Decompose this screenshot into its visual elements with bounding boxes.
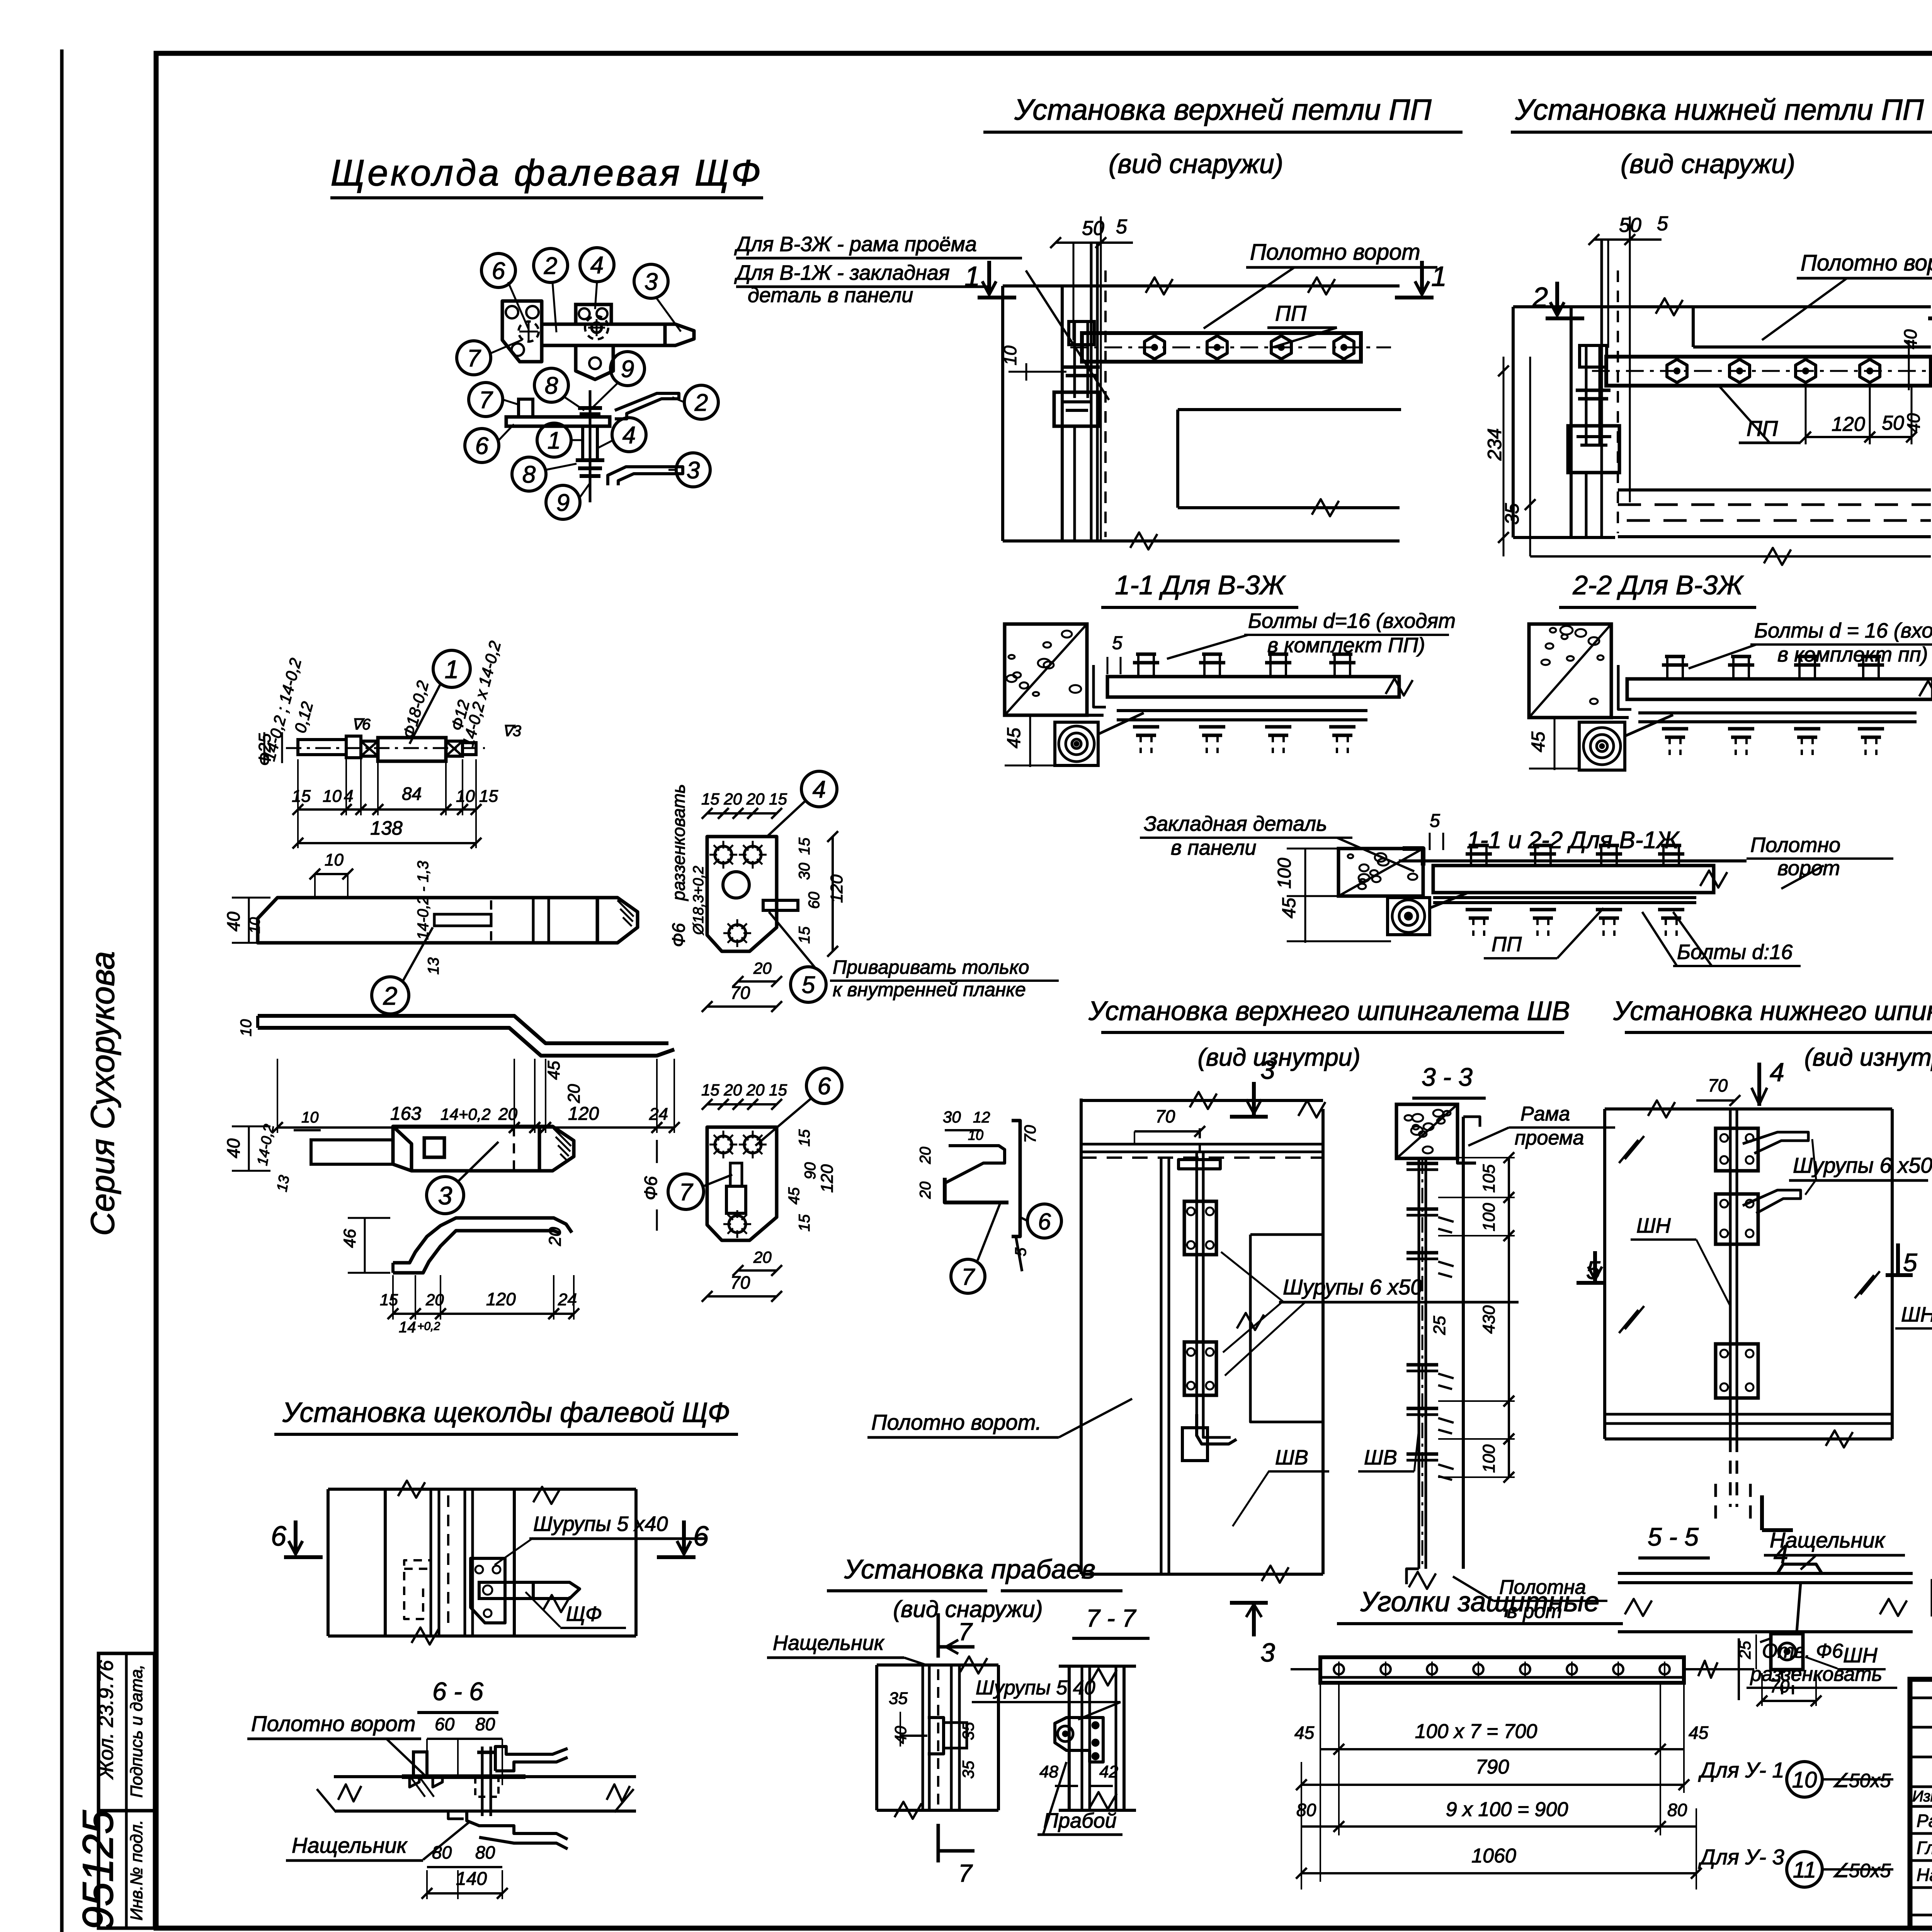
svg-text:20: 20 bbox=[753, 959, 772, 977]
svg-text:Прабой: Прабой bbox=[1043, 1809, 1117, 1832]
part 3 latch bar with arrow tip bbox=[311, 1140, 393, 1164]
ШВ guide plate upper bbox=[1184, 1201, 1216, 1255]
5-5 keeper box bbox=[1771, 1634, 1803, 1670]
svg-text:5: 5 bbox=[1112, 633, 1122, 653]
svg-text:5: 5 bbox=[1012, 1247, 1029, 1256]
svg-text:80: 80 bbox=[1296, 1800, 1316, 1820]
svg-text:15: 15 bbox=[796, 1129, 813, 1146]
svg-text:6: 6 bbox=[818, 1073, 831, 1100]
svg-text:100: 100 bbox=[1274, 858, 1295, 889]
part 2 slot bbox=[434, 914, 491, 926]
svg-text:1: 1 bbox=[445, 655, 459, 684]
svg-text:к внутренней планке: к внутренней планке bbox=[833, 979, 1026, 1000]
svg-text:42: 42 bbox=[1099, 1762, 1118, 1781]
svg-text:Подпись и дата,: Подпись и дата, bbox=[127, 1664, 146, 1798]
section 2-2 bolts bbox=[1665, 655, 1685, 658]
svg-text:12: 12 bbox=[973, 1109, 990, 1126]
part hook (lower) bbox=[393, 1218, 572, 1263]
svg-text:(вид изнутри): (вид изнутри) bbox=[1804, 1043, 1932, 1071]
svg-text:Гл. спец.: Гл. спец. bbox=[1917, 1838, 1932, 1858]
part Z bent bar bbox=[258, 1016, 668, 1043]
svg-text:45: 45 bbox=[1279, 898, 1299, 918]
section 2-2 strap bar bbox=[1627, 679, 1932, 699]
part 2 arrow tip bbox=[597, 898, 638, 943]
svg-text:80: 80 bbox=[1667, 1800, 1687, 1820]
svg-text:20: 20 bbox=[546, 1227, 565, 1246]
svg-text:15: 15 bbox=[796, 926, 813, 944]
svg-text:Установка верхней петли ПП: Установка верхней петли ПП bbox=[1014, 94, 1432, 126]
svg-text:5: 5 bbox=[1903, 1248, 1917, 1277]
svg-text:∇6: ∇6 bbox=[352, 716, 371, 733]
bent keeper section (pos 7/6) bbox=[945, 1146, 1005, 1183]
svg-text:9 х 100 = 900: 9 х 100 = 900 bbox=[1446, 1798, 1568, 1821]
svg-text:Установка нижней петли ПП: Установка нижней петли ПП bbox=[1515, 94, 1924, 126]
callout circle 8 upper bbox=[534, 368, 568, 402]
section 2-2 frame angle bbox=[1611, 657, 1629, 718]
svg-text:15: 15 bbox=[479, 787, 498, 806]
svg-text:9: 9 bbox=[556, 490, 570, 516]
svg-text:2: 2 bbox=[694, 389, 708, 416]
svg-text:14: 14 bbox=[399, 1319, 416, 1336]
callout circle 3 right bbox=[676, 453, 710, 487]
svg-text:14+0,2: 14+0,2 bbox=[440, 1105, 491, 1123]
svg-text:6: 6 bbox=[271, 1521, 287, 1552]
callout circle 9 lower bbox=[546, 485, 580, 519]
svg-text:15: 15 bbox=[796, 837, 813, 855]
svg-text:Инв.№ подл.: Инв.№ подл. bbox=[127, 1820, 146, 1921]
svg-text:120: 120 bbox=[568, 1104, 599, 1124]
callout circle 4 lower bbox=[612, 418, 646, 452]
svg-text:10: 10 bbox=[301, 1109, 319, 1126]
hook pos3 (lower right) bbox=[608, 467, 683, 485]
3-3 concrete lintel bbox=[1396, 1104, 1458, 1158]
svg-text:(вид изнутри): (вид изнутри) bbox=[1197, 1043, 1360, 1071]
svg-text:ПП: ПП bbox=[1492, 933, 1522, 956]
svg-text:60: 60 bbox=[435, 1714, 455, 1734]
callout circle 4 bbox=[580, 248, 614, 282]
svg-text:50: 50 bbox=[1882, 412, 1904, 434]
ШВ guide plate lower bbox=[1184, 1342, 1216, 1395]
ШН rod below panel (dashed) bbox=[1729, 1439, 1732, 1507]
svg-text:3: 3 bbox=[438, 1181, 452, 1210]
svg-text:10: 10 bbox=[323, 787, 342, 806]
ШН panel bottom rail bbox=[1605, 1413, 1892, 1416]
sheet trim line left bbox=[60, 49, 64, 1932]
svg-text:6: 6 bbox=[475, 433, 489, 459]
svg-text:раззенковать: раззенковать bbox=[1750, 1663, 1882, 1685]
svg-text:Полотно ворот: Полотно ворот bbox=[251, 1711, 415, 1736]
svg-text:2: 2 bbox=[383, 981, 398, 1010]
svg-text:10: 10 bbox=[325, 850, 344, 869]
svg-text:1-1 и 2-2 Для В-1Ж: 1-1 и 2-2 Для В-1Ж bbox=[1467, 827, 1680, 854]
svg-text:4: 4 bbox=[813, 776, 826, 803]
svg-text:5: 5 bbox=[1657, 213, 1668, 235]
svg-text:Болты d=16 (входят: Болты d=16 (входят bbox=[1248, 609, 1456, 633]
svg-text:14-0,2 - 1,3: 14-0,2 - 1,3 bbox=[415, 861, 432, 940]
svg-text:7 - 7: 7 - 7 bbox=[1086, 1604, 1136, 1632]
svg-text:5: 5 bbox=[1430, 811, 1440, 831]
3-3 screw arrows bbox=[1438, 1217, 1454, 1222]
svg-text:100 х 7 = 700: 100 х 7 = 700 bbox=[1415, 1720, 1537, 1743]
svg-text:5 - 5: 5 - 5 bbox=[1648, 1522, 1699, 1551]
section 2-2 lower plate bbox=[1638, 711, 1917, 714]
section 1-1 concrete jamb bbox=[1005, 624, 1087, 715]
svg-text:40: 40 bbox=[223, 912, 243, 932]
svg-text:Ф6: Ф6 bbox=[668, 923, 689, 947]
svg-text:Закладная деталь: Закладная деталь bbox=[1144, 812, 1327, 835]
svg-text:163: 163 bbox=[390, 1104, 421, 1124]
latch exploded view: keeper plate below pos4 bbox=[576, 345, 613, 379]
svg-text:ШВ: ШВ bbox=[1275, 1446, 1308, 1469]
svg-text:45: 45 bbox=[1294, 1723, 1315, 1743]
hook pos2 (upper right) bbox=[615, 393, 679, 419]
title block outer bbox=[1910, 1679, 1932, 1928]
svg-text:Жол. 23.9.76: Жол. 23.9.76 bbox=[95, 1660, 117, 1780]
svg-text:2: 2 bbox=[544, 253, 557, 279]
callout circle 8 lower bbox=[512, 457, 546, 491]
section 1-1 lower plate bbox=[1117, 709, 1367, 712]
svg-text:7: 7 bbox=[679, 1179, 694, 1206]
6-6 lower keeper bbox=[467, 1811, 568, 1839]
svg-text:138: 138 bbox=[370, 817, 403, 839]
stub pos7 bbox=[519, 399, 533, 417]
svg-text:Шурупы 5 40: Шурупы 5 40 bbox=[976, 1677, 1095, 1699]
svg-text:Для У- 3: Для У- 3 bbox=[1698, 1845, 1784, 1869]
section flag 7 bottom bbox=[937, 1824, 940, 1862]
svg-text:Полотно ворот: Полотно ворот bbox=[1801, 250, 1932, 276]
plate pos4 drawing bbox=[707, 837, 777, 951]
svg-text:35: 35 bbox=[959, 1760, 977, 1779]
svg-text:60: 60 bbox=[806, 892, 823, 909]
section mark 1 right bbox=[1395, 296, 1434, 299]
svg-text:ШН: ШН bbox=[1901, 1303, 1932, 1326]
svg-text:(вид снаружи): (вид снаружи) bbox=[1621, 149, 1795, 179]
section mark 2 left bbox=[1546, 316, 1584, 320]
svg-text:20: 20 bbox=[565, 1084, 583, 1103]
svg-text:Ф6: Ф6 bbox=[641, 1176, 661, 1201]
latch assembled lower view: base bar pos6 bbox=[506, 417, 610, 426]
svg-text:5: 5 bbox=[802, 972, 815, 998]
callout circle 1 bbox=[537, 423, 571, 457]
callout 7 pointing at stub bbox=[668, 1174, 704, 1209]
svg-text:95125: 95125 bbox=[74, 1810, 122, 1930]
svg-text:40: 40 bbox=[1900, 329, 1920, 349]
svg-text:20: 20 bbox=[917, 1147, 934, 1165]
svg-text:Отв. Ф6: Отв. Ф6 bbox=[1762, 1640, 1843, 1662]
section 1-1 bolts bbox=[1136, 653, 1156, 656]
6-6 latch section parts bbox=[413, 1752, 427, 1777]
svg-text:3: 3 bbox=[687, 457, 700, 484]
svg-text:Изм: Изм bbox=[1912, 1788, 1932, 1805]
svg-text:Установка прабаев: Установка прабаев bbox=[844, 1554, 1095, 1584]
svg-text:70: 70 bbox=[1155, 1106, 1175, 1126]
svg-text:10: 10 bbox=[238, 1019, 255, 1037]
latch exploded view: handle boss pos1 bbox=[585, 316, 608, 339]
svg-text:15 20 20 15: 15 20 20 15 bbox=[701, 1081, 787, 1099]
ШВ bottom latch foot bbox=[1197, 1414, 1236, 1444]
svg-text:7: 7 bbox=[958, 1859, 973, 1887]
svg-text:1: 1 bbox=[1431, 261, 1447, 292]
пробои main drawing bbox=[877, 1663, 998, 1667]
svg-text:70: 70 bbox=[730, 1272, 750, 1293]
уголок holes bbox=[1334, 1664, 1344, 1674]
leader wire to hinge bbox=[1026, 270, 1109, 400]
svg-text:1060: 1060 bbox=[1471, 1845, 1516, 1867]
svg-text:35: 35 bbox=[959, 1722, 977, 1740]
6-6 diag hatch marks bbox=[410, 1777, 425, 1797]
callout circle 3 bbox=[634, 264, 668, 298]
3-3 door edge line bbox=[1462, 1117, 1465, 1569]
svg-text:30: 30 bbox=[943, 1108, 961, 1126]
svg-text:Разраб.: Разраб. bbox=[1917, 1811, 1932, 1831]
svg-text:ШН: ШН bbox=[1636, 1214, 1671, 1237]
svg-text:Для В-3Ж - рама проёма: Для В-3Ж - рама проёма bbox=[734, 233, 977, 256]
svg-text:80: 80 bbox=[475, 1842, 495, 1862]
svg-text:6: 6 bbox=[693, 1521, 709, 1552]
svg-text:4: 4 bbox=[590, 252, 604, 279]
plate pos6 callout 6 bbox=[806, 1068, 842, 1104]
svg-text:2: 2 bbox=[1532, 282, 1548, 313]
svg-text:7: 7 bbox=[958, 1618, 973, 1646]
svg-text:120: 120 bbox=[827, 874, 846, 903]
svg-text:100: 100 bbox=[1480, 1203, 1498, 1231]
svg-text:ШВ: ШВ bbox=[1364, 1446, 1397, 1469]
svg-text:3: 3 bbox=[645, 269, 658, 295]
6-6 bolt through bbox=[481, 1747, 484, 1816]
уголок bar bbox=[1320, 1657, 1684, 1683]
part 3 callout bbox=[427, 1177, 464, 1214]
callout circle 7 lower bbox=[469, 383, 503, 417]
svg-text:45: 45 bbox=[1004, 728, 1024, 748]
bent keeper callouts bbox=[1027, 1204, 1061, 1238]
section В-1Ж bolts bbox=[1469, 844, 1489, 847]
3-3 frame angle top bbox=[1458, 1136, 1476, 1163]
svg-text:30: 30 bbox=[796, 863, 813, 880]
section mark 2 right bbox=[1928, 316, 1932, 320]
svg-text:45: 45 bbox=[1528, 731, 1549, 752]
wall / frame verticals bbox=[1001, 286, 1004, 541]
part 1 axle body bbox=[298, 740, 346, 755]
section mark 6 right bbox=[657, 1555, 696, 1559]
ШН lower plate bbox=[1716, 1344, 1758, 1398]
svg-text:120: 120 bbox=[1832, 413, 1865, 435]
svg-text:1: 1 bbox=[964, 261, 980, 292]
svg-text:7: 7 bbox=[961, 1264, 975, 1290]
ШВ door edge double line bbox=[1160, 1158, 1163, 1574]
svg-text:ПП: ПП bbox=[1275, 301, 1307, 325]
ШН rod bbox=[1729, 1109, 1732, 1439]
svg-text:46: 46 bbox=[340, 1229, 359, 1248]
svg-text:1-1 Для В-3Ж: 1-1 Для В-3Ж bbox=[1115, 570, 1286, 600]
щеколда latch parts bbox=[404, 1560, 431, 1619]
latch exploded view: strap pos2 bbox=[542, 324, 665, 345]
svg-text:8: 8 bbox=[522, 461, 536, 488]
hinge support box bbox=[1054, 392, 1100, 426]
lower hinge pivot stack bbox=[1585, 345, 1588, 444]
ШВ recess opening bbox=[1250, 1235, 1323, 1422]
svg-text:1: 1 bbox=[548, 427, 561, 454]
svg-text:Шурупы 6 х50: Шурупы 6 х50 bbox=[1283, 1275, 1422, 1299]
svg-text:4: 4 bbox=[622, 422, 636, 449]
svg-text:Полотно ворот.: Полотно ворот. bbox=[871, 1410, 1041, 1434]
svg-text:13: 13 bbox=[425, 957, 442, 975]
щеколда drawing panel lines bbox=[328, 1488, 636, 1491]
svg-text:15: 15 bbox=[380, 1291, 398, 1309]
svg-text:Нащельник: Нащельник bbox=[292, 1833, 408, 1857]
plate pos6 drawing (lower) bbox=[707, 1127, 777, 1240]
section 1-1 hinge spiral bbox=[1055, 722, 1098, 765]
svg-text:3: 3 bbox=[1260, 1055, 1275, 1085]
svg-text:105: 105 bbox=[1480, 1164, 1498, 1193]
svg-text:100: 100 bbox=[1480, 1444, 1498, 1473]
svg-text:120: 120 bbox=[486, 1289, 516, 1309]
svg-text:48: 48 bbox=[1039, 1762, 1058, 1781]
svg-text:Шурупы 5 х40: Шурупы 5 х40 bbox=[533, 1512, 668, 1536]
section 1-1 strap bar bbox=[1107, 677, 1399, 697]
svg-text:8: 8 bbox=[545, 372, 558, 399]
section В-1Ж concrete panel bbox=[1338, 849, 1423, 896]
section В-1Ж strap bar bbox=[1433, 866, 1714, 893]
callout circle 2 bbox=[534, 248, 568, 282]
svg-text:Установка верхнего шпингал: Установка верхнего шпингалета ШВ bbox=[1088, 996, 1570, 1026]
svg-text:6: 6 bbox=[492, 258, 505, 284]
svg-text:Установка щеколды фалевой Щ: Установка щеколды фалевой ЩФ bbox=[282, 1397, 730, 1428]
lower hinge bolts bbox=[1667, 359, 1687, 383]
svg-text:10: 10 bbox=[456, 787, 475, 806]
svg-text:Для В-1Ж - закладная: Для В-1Ж - закладная bbox=[734, 261, 950, 284]
3-3 bottom foot bbox=[1406, 1569, 1419, 1584]
svg-text:70: 70 bbox=[730, 983, 750, 1003]
svg-text:11: 11 bbox=[1793, 1857, 1816, 1883]
svg-text:35: 35 bbox=[889, 1689, 908, 1708]
latch exploded view: plate pos4 top bbox=[576, 304, 611, 324]
svg-text:Для У- 1: Для У- 1 bbox=[1698, 1758, 1784, 1782]
6-6 right break lines bbox=[317, 1789, 336, 1812]
wall verticals (lower hinge) bbox=[1512, 307, 1515, 537]
svg-text:3 - 3: 3 - 3 bbox=[1422, 1063, 1473, 1091]
svg-text:40: 40 bbox=[1903, 413, 1923, 433]
ШН upper plate with hook bbox=[1716, 1128, 1758, 1171]
vertical bolt pos1 bbox=[583, 426, 597, 460]
ШВ top rail lines bbox=[1081, 1143, 1323, 1146]
svg-text:80: 80 bbox=[475, 1714, 495, 1734]
svg-text:Ø18,3+0,2: Ø18,3+0,2 bbox=[690, 866, 707, 936]
7-7 keeper hook bbox=[1055, 1718, 1103, 1762]
gate panel top edge bbox=[1003, 284, 1400, 287]
section 2-2 hinge spiral bbox=[1579, 722, 1625, 770]
callout circle 6 lower bbox=[465, 429, 499, 463]
svg-text:∇3: ∇3 bbox=[502, 723, 521, 740]
callout 11 bbox=[1787, 1852, 1822, 1887]
section В-1Ж hinge spiral bbox=[1388, 898, 1430, 935]
plate pos4 callouts bbox=[801, 771, 837, 807]
svg-text:120: 120 bbox=[818, 1164, 837, 1193]
svg-text:7: 7 bbox=[479, 387, 493, 413]
svg-text:70: 70 bbox=[1021, 1125, 1039, 1143]
svg-text:25: 25 bbox=[1430, 1316, 1449, 1335]
section flag 4 bottom bbox=[1760, 1495, 1764, 1530]
stamp block Инв.№ подл / Подпись и дата bbox=[99, 1653, 155, 1928]
gate panel block (lower hinge) bbox=[1513, 305, 1931, 308]
svg-text:24: 24 bbox=[649, 1105, 668, 1124]
callout circle 6 bbox=[481, 253, 515, 287]
section flag 3 bottom bbox=[1230, 1601, 1268, 1605]
svg-text:430: 430 bbox=[1480, 1305, 1498, 1334]
part 2 callout bbox=[372, 977, 409, 1014]
3-3 dims right bbox=[1508, 1158, 1510, 1197]
svg-text:15 20 20 15: 15 20 20 15 bbox=[701, 790, 787, 808]
part 1 axle callout bbox=[433, 650, 470, 687]
svg-text:4: 4 bbox=[1770, 1058, 1784, 1087]
callout circle 7 bbox=[457, 341, 491, 375]
svg-text:10: 10 bbox=[247, 917, 263, 934]
3-3 vertical rod bbox=[1418, 1158, 1420, 1569]
ШН break marks bbox=[1619, 1140, 1638, 1163]
svg-text:20: 20 bbox=[753, 1248, 772, 1266]
svg-text:15: 15 bbox=[796, 1214, 813, 1231]
section 2-2 concrete jamb bbox=[1529, 624, 1611, 718]
svg-text:Нащельник: Нащельник bbox=[773, 1631, 885, 1655]
6-6 panel section lines bbox=[334, 1775, 524, 1778]
пробои keeper bbox=[928, 1718, 944, 1754]
callout circle 2 right bbox=[684, 385, 718, 419]
section mark 6 left bbox=[284, 1555, 323, 1559]
5-5 panel section bbox=[1618, 1572, 1913, 1575]
svg-text:Щеколда фалевая ЩФ: Щеколда фалевая ЩФ bbox=[330, 152, 763, 194]
ШН door panel outline bbox=[1603, 1109, 1606, 1439]
part 3 square hole bbox=[424, 1138, 444, 1157]
svg-text:Полотно ворот: Полотно ворот bbox=[1250, 240, 1420, 265]
svg-text:6: 6 bbox=[1038, 1209, 1051, 1235]
lower hinge support box bbox=[1568, 426, 1619, 473]
ШВ rod top handle bbox=[1179, 1160, 1220, 1169]
svg-text:3: 3 bbox=[1260, 1638, 1275, 1667]
svg-text:Рама: Рама bbox=[1520, 1103, 1570, 1125]
svg-text:ПП: ПП bbox=[1747, 416, 1778, 440]
svg-text:Уголки защитные: Уголки защитные bbox=[1360, 1587, 1600, 1617]
callout 10 bbox=[1787, 1762, 1822, 1797]
svg-text:Нач. отд.: Нач. отд. bbox=[1917, 1865, 1932, 1885]
уголок dim extension verticals bbox=[1320, 1683, 1321, 1882]
svg-text:6 - 6: 6 - 6 bbox=[432, 1677, 483, 1706]
svg-text:80: 80 bbox=[432, 1842, 452, 1862]
svg-text:90: 90 bbox=[802, 1162, 819, 1180]
svg-text:Полотно: Полотно bbox=[1750, 833, 1840, 857]
svg-text:40: 40 bbox=[223, 1138, 243, 1158]
svg-text:Нащельник: Нащельник bbox=[1770, 1528, 1886, 1552]
svg-text:20: 20 bbox=[425, 1291, 444, 1309]
svg-text:+0,2: +0,2 bbox=[417, 1320, 440, 1333]
ШВ bolt rod bbox=[1196, 1152, 1198, 1430]
callout circle 9 upper bbox=[611, 352, 645, 386]
svg-text:10: 10 bbox=[1000, 345, 1020, 366]
svg-text:9: 9 bbox=[621, 356, 634, 383]
hinge strap bolts bbox=[1145, 336, 1165, 359]
svg-text:45: 45 bbox=[544, 1061, 563, 1080]
svg-text:раззенковать: раззенковать bbox=[668, 784, 689, 901]
svg-text:Болты d = 16 (входят: Болты d = 16 (входят bbox=[1754, 619, 1932, 642]
svg-text:Приваривать только: Приваривать только bbox=[833, 956, 1029, 978]
svg-text:84: 84 bbox=[402, 784, 422, 804]
latch exploded view: tip of bar pos3 bbox=[665, 324, 694, 345]
svg-text:15: 15 bbox=[292, 787, 311, 806]
svg-text:45: 45 bbox=[1689, 1723, 1709, 1743]
svg-text:70: 70 bbox=[1708, 1075, 1728, 1095]
svg-text:20: 20 bbox=[917, 1182, 934, 1199]
hinge pivot bolt stack bbox=[1069, 321, 1094, 345]
svg-text:2-2 Для В-3Ж: 2-2 Для В-3Ж bbox=[1572, 570, 1744, 600]
svg-text:10: 10 bbox=[1792, 1767, 1817, 1793]
